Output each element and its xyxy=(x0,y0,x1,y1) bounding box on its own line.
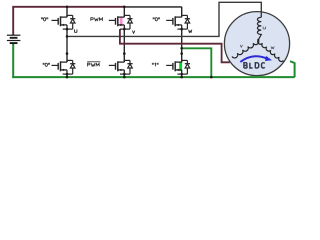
wire: leg 1 drain drop from rail xyxy=(66,7,68,17)
node: w return joins green rail xyxy=(210,76,213,79)
transistor Q4 (bottom U, gate "0") xyxy=(52,60,76,74)
label phase u xyxy=(75,29,77,32)
label gate /PWM bottom leg2 xyxy=(88,63,91,66)
wire: leg 1 midpoint vertical xyxy=(66,29,68,62)
transistor Q5 (bottom V, gate /PWM) xyxy=(109,60,133,74)
winding v (lower-left coil) xyxy=(232,40,259,58)
positive DC rail (maroon) xyxy=(12,6,124,8)
wire: leg 2 source to green rail xyxy=(123,74,125,77)
transistor Q2 (top V, gate PWM) xyxy=(109,15,133,29)
wire: leg 3 source to green rail xyxy=(181,74,183,77)
wire: leg 2 drain drop from rail xyxy=(123,7,125,17)
node: rail junction leg2 xyxy=(123,6,126,9)
wire: leg 3 drain drop from rail xyxy=(181,7,183,17)
node: bottom drain connection xyxy=(180,52,183,55)
node: bottom source corner xyxy=(123,73,126,76)
wire: phase u to motor (dark) xyxy=(67,2,261,36)
node: star point xyxy=(257,39,259,41)
positive rail continuation (dark) to leg 3 xyxy=(124,6,181,8)
label gate PWM top leg2 xyxy=(91,18,94,21)
transistor Q6 (bottom W, gate "1") xyxy=(166,60,190,74)
label winding u xyxy=(263,27,265,30)
label BLDC xyxy=(244,63,247,68)
wire: leg 3 midpoint vertical xyxy=(181,29,183,62)
node: bottom drain connection xyxy=(66,52,69,55)
label gate "1" bottom leg3 xyxy=(152,63,153,64)
rotation arrow xyxy=(240,56,266,62)
green rail riser to motor xyxy=(290,61,295,77)
node: top source corner xyxy=(66,28,69,31)
winding w (lower-right coil) xyxy=(258,40,284,62)
node: bottom drain connection xyxy=(123,52,126,55)
node u tap xyxy=(66,35,69,38)
wire: leg 1 source to green rail xyxy=(66,74,68,77)
label gate "0" top leg3 xyxy=(153,18,154,19)
node: bottom source corner xyxy=(180,73,183,76)
transistor Q1 (top U, gate "0") xyxy=(52,15,76,29)
node: rail junction leg1 xyxy=(66,6,69,9)
node: top source corner xyxy=(180,28,183,31)
node: green rail junction xyxy=(66,76,69,79)
BLDC motor body M1 xyxy=(224,12,289,76)
battery BT1 negative lead xyxy=(12,43,14,78)
node: top source corner xyxy=(123,28,126,31)
wire: leg 2 midpoint vertical xyxy=(123,29,125,62)
label gate "0" bottom leg1 xyxy=(43,63,44,64)
label winding v xyxy=(240,45,242,48)
winding u (top coil) xyxy=(257,17,261,40)
wire: phase w to green return xyxy=(182,48,212,77)
label gate "0" top leg1 xyxy=(41,18,42,19)
node w tap (green) xyxy=(180,47,183,50)
battery BT1 plates xyxy=(7,34,21,36)
node: bottom source corner xyxy=(66,73,69,76)
overline of /PWM xyxy=(87,61,100,63)
label winding w xyxy=(271,46,274,49)
wire: phase v to motor (maroon) xyxy=(120,29,230,62)
transistor Q3 (top W, gate "0") xyxy=(166,15,190,29)
battery BT1 positive lead xyxy=(12,7,14,35)
label phase v xyxy=(132,31,134,34)
label phase w xyxy=(189,30,192,33)
node: green rail junction xyxy=(123,76,126,79)
negative DC rail (green) xyxy=(12,76,295,78)
node: green rail junction xyxy=(180,76,183,79)
